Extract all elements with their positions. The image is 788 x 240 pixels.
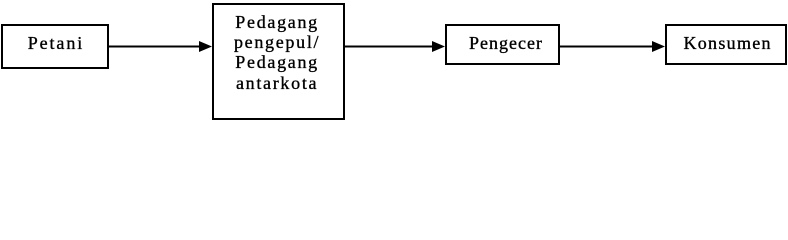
box Petani — [1, 24, 109, 69]
arrow from Pengecer to Konsumen — [560, 39, 666, 54]
arrow from Pedagang pengepul to Pengecer — [344, 39, 446, 54]
arrow from Petani to Pedagang pengepul — [109, 39, 213, 54]
box Pedagang pengepul / Pedagang antarkota — [212, 3, 345, 120]
box Pengecer — [445, 24, 560, 65]
box Konsumen — [665, 24, 787, 65]
